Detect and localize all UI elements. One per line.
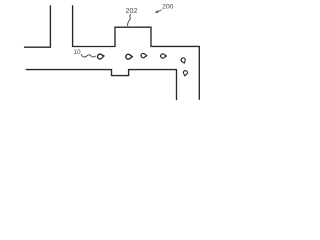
svg-text:200: 200 xyxy=(162,4,174,11)
svg-text:10: 10 xyxy=(74,49,81,56)
svg-text:202: 202 xyxy=(126,8,138,15)
